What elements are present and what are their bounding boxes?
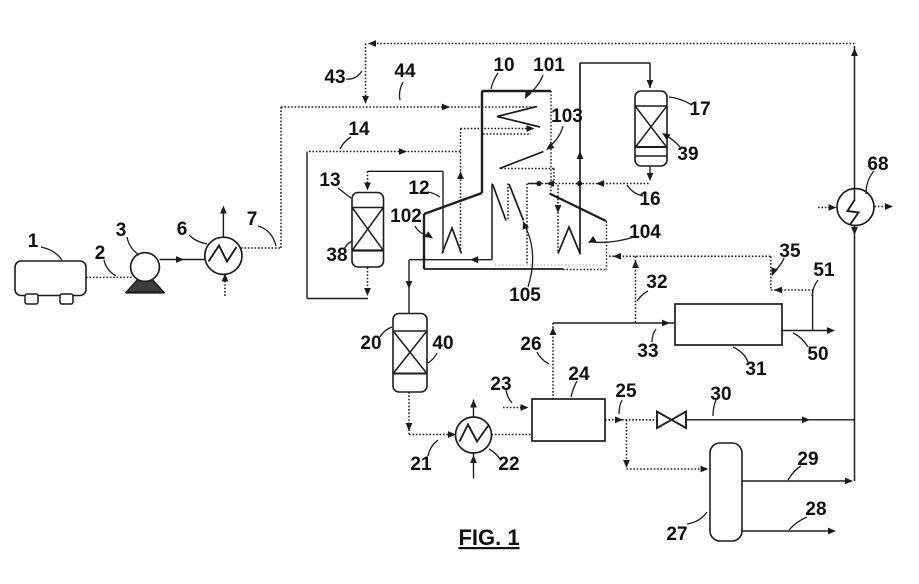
heat exchanger E22 (456, 417, 492, 453)
coil 101 return line (dotted) (461, 128, 533, 130)
svg-text:13: 13 (319, 170, 340, 191)
wire 21 (R20 to exchanger 22, dotted) (408, 392, 410, 435)
E6 top outlet stub (222, 208, 224, 238)
wire 35 (dotted) (609, 255, 771, 257)
svg-text:32: 32 (646, 272, 667, 293)
wire 26 (box 24 top riser, dotted) (552, 323, 554, 399)
svg-text:17: 17 (689, 99, 710, 120)
reactor R17 vessel (635, 91, 667, 166)
svg-text:39: 39 (677, 144, 698, 165)
wire furnace bottom to reactor 20 (solid) (409, 259, 492, 261)
svg-text:101: 101 (533, 55, 565, 76)
wire 14 (dotted) (309, 151, 461, 153)
wire 23 inlet (dotted) (503, 407, 526, 409)
svg-text:103: 103 (551, 106, 583, 127)
svg-text:33: 33 (637, 341, 658, 362)
wire 43 recycle from top (dotted) (368, 43, 855, 45)
R17 bottom outlet (649, 166, 651, 179)
furnace coil 103 (500, 152, 544, 169)
wire 28 (separator bottoms) (742, 530, 834, 532)
furnace coil 102 chevron (442, 228, 462, 254)
svg-text:3: 3 (116, 220, 127, 241)
heat exchanger E6 (205, 237, 242, 274)
R17 bed lines and cross (635, 105, 667, 107)
svg-text:21: 21 (410, 454, 432, 475)
furnace middle coil 105 (491, 184, 493, 260)
reactor R20 vessel (393, 314, 427, 393)
wire exchanger 22 to box 24 (dotted) (492, 434, 533, 436)
svg-text:27: 27 (666, 524, 687, 545)
svg-text:26: 26 (520, 334, 541, 355)
wire loop from reactor 13 bottom (solid) (306, 152, 308, 299)
svg-text:44: 44 (394, 61, 416, 82)
R13 bed lines and cross (352, 207, 384, 209)
svg-text:43: 43 (324, 67, 345, 88)
tank T1 (feed drum) (15, 261, 86, 296)
svg-text:35: 35 (779, 241, 801, 262)
coil 103 outlet (dotted) (501, 168, 554, 170)
reactor 13 bottom outlet (dotted) (367, 268, 369, 295)
svg-text:20: 20 (360, 333, 381, 354)
svg-text:104: 104 (629, 222, 661, 243)
svg-text:23: 23 (490, 374, 511, 395)
E22 bottom utility stub (473, 453, 475, 479)
separator vessel 27 (710, 443, 742, 541)
svg-text:25: 25 (615, 381, 637, 402)
wire 33 (solid, into box 31) (553, 322, 674, 324)
svg-text:105: 105 (509, 285, 541, 306)
svg-text:10: 10 (493, 55, 514, 76)
svg-text:28: 28 (805, 499, 826, 520)
svg-text:102: 102 (390, 206, 422, 227)
right recycle header (solid vertical) (854, 46, 856, 481)
svg-text:30: 30 (710, 384, 731, 405)
wire pump to exchanger 6 (160, 259, 206, 261)
reactor R13 vessel (352, 193, 384, 268)
pump P3 (126, 279, 164, 293)
svg-text:24: 24 (568, 364, 590, 385)
wire 25 (box 24 to valve, dotted) (605, 419, 657, 421)
svg-text:FIG. 1: FIG. 1 (458, 525, 519, 550)
E68 side streams (dotted) (818, 207, 834, 209)
box 31 (675, 304, 782, 345)
wire 16 (reactor 17 return, dotted) (528, 183, 650, 185)
svg-text:31: 31 (745, 359, 767, 380)
svg-text:1: 1 (28, 231, 39, 252)
svg-text:50: 50 (807, 344, 828, 365)
furnace F10 outline (482, 90, 551, 92)
E6 bottom utility inlet (dotted) (224, 276, 226, 297)
E22 top utility stub (473, 400, 475, 418)
svg-text:68: 68 (867, 154, 888, 175)
box 24 (532, 399, 605, 441)
wire 29 (separator overhead) (742, 480, 851, 482)
wire 2 (tank to pump, dotted) (86, 276, 133, 278)
wire 44 header y=107 (dotted) (281, 106, 536, 108)
wire 51 (dotted + solid drop) (771, 289, 813, 291)
wire into coil 104 (dotted drop) (557, 185, 559, 253)
svg-text:40: 40 (432, 333, 453, 354)
R20 bed lines and cross (393, 330, 427, 332)
valve 30 bowtie (657, 412, 672, 429)
heat exchanger E68 (837, 189, 874, 226)
wire 30 (valve to right header, solid) (686, 419, 855, 421)
svg-text:22: 22 (498, 454, 519, 475)
wire 25 drop to separator 27 (dotted) (626, 420, 628, 466)
riser to reactor 17 (solid) (579, 63, 581, 255)
wire 12 (furnace coil to reactor 13 top) (442, 171, 444, 253)
wire 50 (product out of box 31) (782, 330, 833, 332)
svg-text:6: 6 (177, 219, 188, 240)
furnace coil 101 (497, 107, 540, 128)
wire 32 (dotted riser) (635, 256, 637, 323)
svg-text:51: 51 (813, 260, 835, 281)
svg-text:16: 16 (639, 189, 660, 210)
wire 7 (exchanger to furnace feed line, dotted) (241, 247, 281, 249)
furnace coil 104 chevron (558, 227, 580, 254)
svg-text:7: 7 (247, 209, 258, 230)
svg-text:12: 12 (408, 178, 429, 199)
svg-text:14: 14 (348, 119, 370, 140)
wire down into firebox x=459 (dotted) (460, 129, 462, 254)
